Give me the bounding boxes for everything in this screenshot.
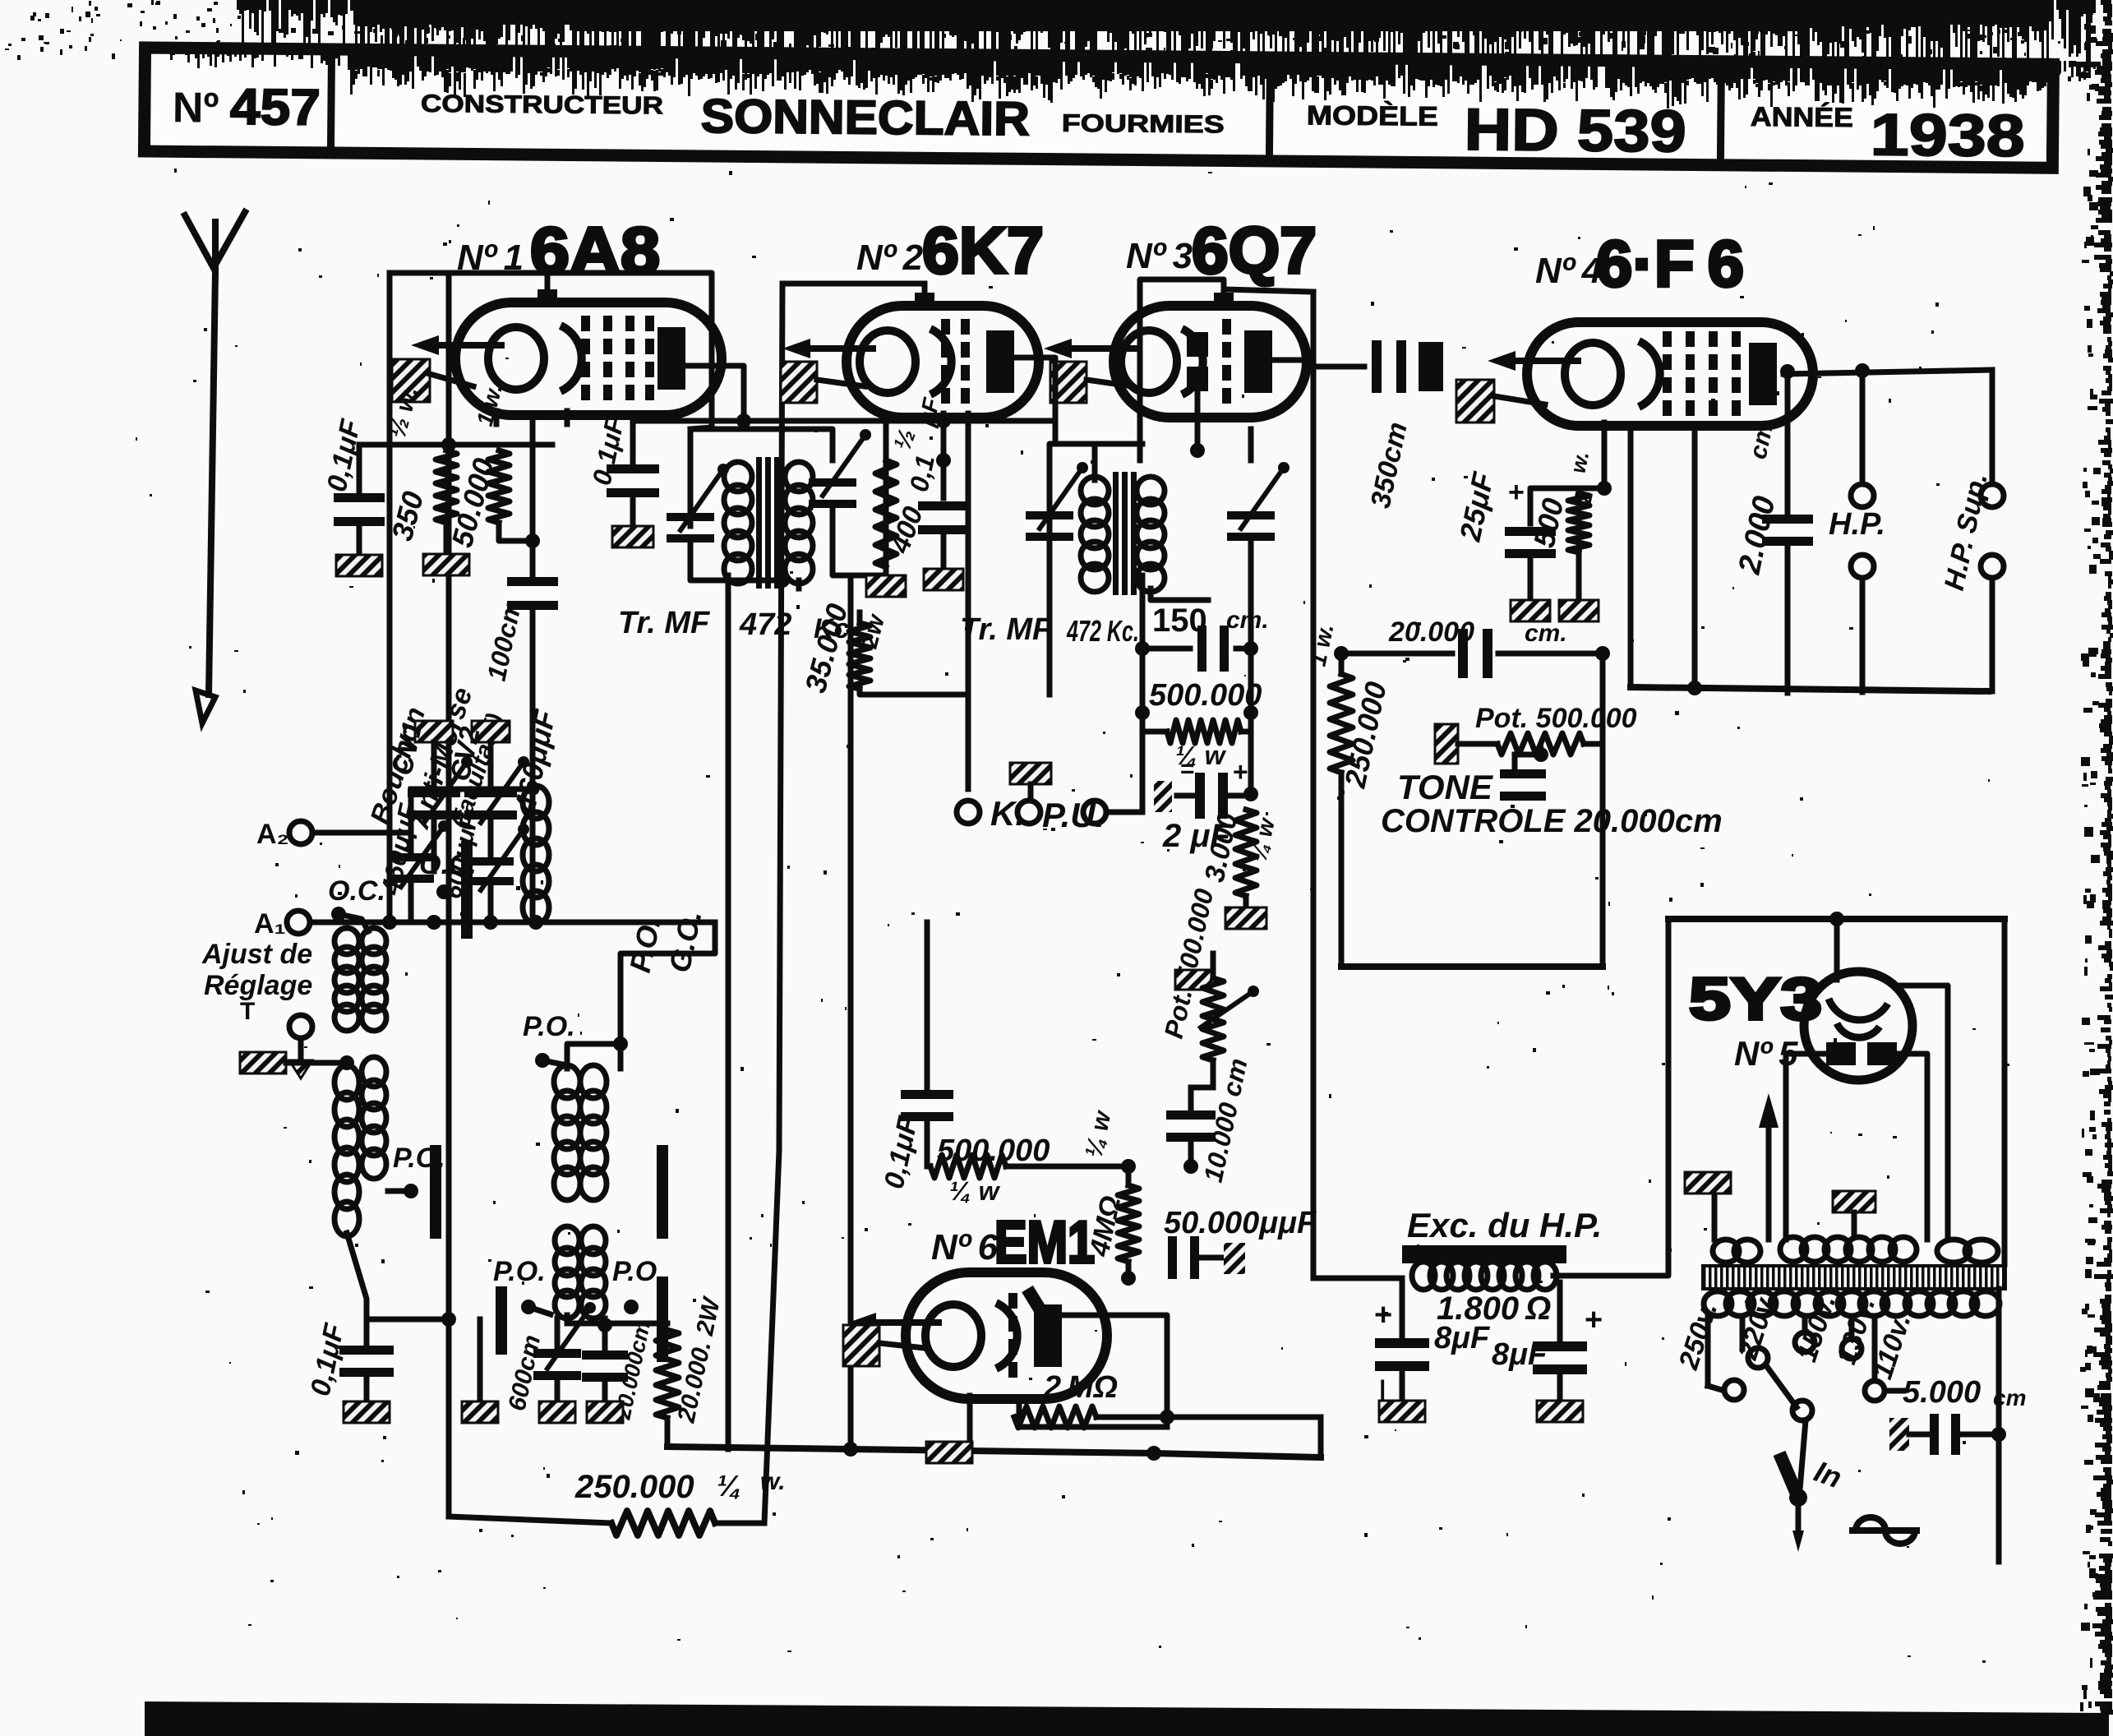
tube U3 grid wire: [1140, 279, 1224, 460]
wire A2 to bouchon: [312, 789, 536, 833]
wire EM1 bus: [1154, 1417, 1321, 1457]
svg-text:6Q7: 6Q7: [1192, 214, 1317, 287]
transformer T1 filament winding A: [1713, 1240, 1760, 1263]
trimmer MF1 right: [809, 429, 886, 575]
wire coil bottom to 0,1uF: [347, 1233, 456, 1327]
AC sine symbol: [1852, 1517, 1917, 1544]
tube U5 5Y3: [1804, 972, 1912, 1080]
wire MF1 box: [690, 429, 833, 588]
transformer Tr.MF 2 secondary: [1137, 477, 1165, 592]
svg-text:cm.: cm.: [1525, 620, 1567, 647]
bus bottom: [667, 1442, 1321, 1461]
tap 130v: [1830, 1294, 1881, 1369]
svg-text:2 MΩ: 2 MΩ: [1043, 1370, 1118, 1405]
HT arrow: [1759, 1093, 1779, 1240]
field coil winding: [1412, 1262, 1557, 1290]
wire B+ vertical 1598: [1311, 292, 1317, 1278]
coil bouchon: [523, 786, 549, 924]
transformer Tr.MF 1 primary: [724, 462, 752, 584]
label P.O. G.O.: [623, 907, 708, 976]
resistor 350 1/2w: [384, 384, 469, 575]
trimmer ajustage: [388, 820, 450, 922]
wire vertical x948: [764, 284, 782, 1523]
tube U5 cathode wire: [1898, 986, 1948, 1237]
tube U2 6K7 label: [856, 214, 1044, 287]
resistor 250.000 1w: [1305, 621, 1393, 967]
svg-text:Ajust de: Ajust de: [201, 939, 312, 970]
resistor 20.000 2W: [656, 1294, 726, 1447]
resistor 400 ohm: [875, 426, 930, 575]
wire net150 right: [1243, 575, 1258, 801]
tube U6 EM1: [848, 1272, 1107, 1399]
variable capacitor CV1: [375, 718, 473, 898]
transformer Tr.MF 1 core: [756, 457, 780, 589]
resistor 50.000 1w: [445, 381, 540, 551]
switch P.O. mid: [388, 1143, 445, 1233]
label Tr. MF 472 Kc 2: [960, 612, 1139, 648]
wire vertical x888: [726, 575, 731, 1449]
wire right vertical bottom: [1996, 1289, 2002, 1562]
svg-text:ANNÉE: ANNÉE: [1751, 101, 1853, 132]
label 1.800 ohm: [1437, 1290, 1551, 1327]
ground 400: [866, 575, 906, 597]
tap 220v: [1732, 1289, 1783, 1368]
svg-text:CONTROLE 20.000cm: CONTROLE 20.000cm: [1381, 803, 1723, 839]
tube U3 anode wire: [1224, 289, 1313, 360]
capacitor 20.000 1w cm: [1334, 616, 1610, 678]
wire U2 lead join: [782, 283, 783, 284]
switch bar low: [462, 1292, 501, 1423]
capacitor 5.000cm: [1889, 1375, 2026, 1455]
svg-text:CONSTRUCTEUR: CONSTRUCTEUR: [421, 90, 664, 120]
field coil wires: [1313, 925, 1668, 1278]
svg-text:250.000: 250.000: [574, 1469, 694, 1505]
resistor 35.000 2w: [798, 600, 968, 696]
potentiometer Pot 500.000 tone: [1435, 703, 1637, 764]
oscillator coil B: [555, 1226, 606, 1318]
terminal K: [957, 794, 1025, 833]
tube U2 grid wire: [782, 281, 925, 287]
svg-text:Réglage: Réglage: [204, 970, 312, 1001]
wire 250k loop bottom: [449, 1517, 764, 1523]
svg-text:P.O.: P.O.: [523, 1011, 575, 1042]
svg-text:Tr. MF: Tr. MF: [618, 606, 711, 640]
wire AF row: [782, 921, 927, 923]
tap 110 circle: [1865, 1371, 1903, 1401]
label 460uuF osc grid: [508, 706, 563, 815]
trimmer MF1 left: [667, 464, 729, 542]
svg-text:Nº 1: Nº 1: [457, 238, 524, 278]
svg-text:50.000μμF: 50.000μμF: [1164, 1206, 1317, 1240]
oscillator coil A: [554, 1065, 607, 1200]
svg-text:5.000: 5.000: [1903, 1375, 1981, 1410]
tube U4 6F6: [1488, 322, 1813, 426]
wire 6K7 screen down: [936, 453, 951, 468]
switch O.C. upper: [328, 875, 385, 931]
capacitor 2.000cm: [1732, 372, 1813, 693]
ground mid left: [240, 1052, 354, 1073]
tube U1 leads: [496, 411, 567, 524]
antenna: [185, 212, 245, 723]
svg-text:Tr. MF: Tr. MF: [960, 612, 1053, 647]
label Ajust de Reglage: [201, 939, 312, 1001]
ground transformer left: [1685, 1172, 1731, 1193]
capacitor 100cm: [482, 524, 558, 683]
tube U1 grid cap wire: [545, 275, 551, 289]
wire B+ top right: [1631, 426, 1988, 695]
capacitor 10.000cm: [1166, 1055, 1253, 1184]
resistor 500.000 AF: [927, 1133, 1136, 1206]
wire vertical x1035: [848, 579, 854, 1451]
tube U1 anode wire: [685, 366, 744, 421]
svg-text:EM1: EM1: [994, 1210, 1095, 1276]
switch P.O. osc top: [523, 1011, 575, 1068]
tube U1 6A8 label: [457, 214, 660, 287]
wire MF2 pri top: [1095, 444, 1142, 480]
svg-text:+: +: [1374, 1298, 1392, 1332]
svg-text:A₁: A₁: [254, 908, 286, 940]
wire left tall vertical: [446, 277, 452, 1517]
tube U1 6A8: [411, 276, 722, 415]
capacitor 350cm coupling: [1313, 340, 1527, 511]
speaker terminals H.P. Sup: [1939, 370, 2004, 691]
terminal PU ground: [1010, 763, 1051, 801]
trimmer MF2 left: [1026, 462, 1088, 541]
svg-text:1938: 1938: [1870, 102, 2025, 169]
tube U3 6Q7: [1044, 284, 1307, 418]
tube U4 leads: [1604, 422, 1695, 488]
switch P.O. low: [493, 1256, 551, 1314]
transformer Tr.MF 1 secondary: [785, 462, 813, 584]
tube U4 cathode ground: [1456, 380, 1545, 422]
transformer T1 core: [1703, 1266, 2005, 1289]
label 8uF: [1434, 1321, 1548, 1372]
svg-text:Nº 2: Nº 2: [856, 238, 924, 278]
svg-text:Pot. 500.000: Pot. 500.000: [1475, 703, 1637, 734]
tap 250v: [1672, 1299, 1744, 1400]
resistor 4 Mohm: [1083, 1185, 1139, 1286]
svg-text:¼ w: ¼ w: [949, 1176, 1001, 1206]
svg-text:MODÈLE: MODÈLE: [1307, 99, 1438, 131]
field coil Exc du H.P. label: [1407, 1206, 1602, 1244]
svg-text:8μF: 8μF: [1434, 1321, 1491, 1355]
label Tr. MF 472 Kc: [618, 606, 850, 644]
wire pot down: [1191, 1060, 1213, 1087]
transformer T1 primary: [1704, 1291, 2000, 1316]
label No6 EM1: [931, 1210, 1095, 1276]
wire AVC vertical: [382, 273, 397, 930]
field coil core: [1402, 1245, 1566, 1263]
trimmer 600cm: [504, 1302, 596, 1423]
svg-text:Exc. du H.P.: Exc. du H.P.: [1407, 1206, 1602, 1244]
svg-text:500.000: 500.000: [1149, 678, 1262, 713]
svg-text:Nº 6: Nº 6: [931, 1227, 999, 1267]
tube U1 cathode ground: [392, 359, 473, 402]
tube U5 anode wires: [1786, 1054, 1927, 1240]
tap 110v: [1866, 1310, 1917, 1383]
mains switch: [1765, 1364, 1846, 1552]
capacitor 20.000cm: [582, 1318, 655, 1423]
label Bouchon Anti-Morse (facultatif): [364, 684, 509, 833]
wire PU right: [1106, 810, 1142, 815]
svg-text:Nº 3: Nº 3: [1126, 236, 1193, 276]
resistor 500 2w: [1527, 449, 1604, 621]
wire MF1 sec bottom: [796, 580, 802, 589]
tube U3 cathode ground: [1050, 362, 1133, 403]
wire MF2 box: [1050, 429, 1251, 690]
wire 6K7 anode: [1009, 358, 1055, 444]
wire net150 left: [1135, 575, 1150, 812]
svg-text:Nº: Nº: [173, 84, 219, 132]
svg-text:+: +: [1585, 1303, 1603, 1337]
wire MF2 sec: [1151, 589, 1208, 600]
capacitor 0,1 6K7: [904, 395, 969, 590]
ground transformer mid: [1833, 1191, 1875, 1237]
terminal A2: [256, 819, 312, 850]
tube U6 ground: [926, 1442, 972, 1463]
tube U6 cathode ground: [843, 1325, 925, 1366]
tube U5 plates: [1826, 1042, 1897, 1065]
wire EM1 vertical: [1081, 1108, 1128, 1185]
capacitor 0,1uF osc: [305, 1319, 394, 1423]
wire screen rail: [633, 413, 1055, 428]
terminal T: [240, 998, 312, 1038]
transformer T1 HT winding: [1780, 1237, 1917, 1262]
switch O.C. 2: [419, 847, 477, 933]
svg-text:H.P.: H.P.: [1829, 507, 1885, 542]
svg-text:FOURMIES: FOURMIES: [1062, 110, 1225, 139]
svg-text:6·F 6: 6·F 6: [1596, 227, 1744, 300]
switch P.O. osc 2: [612, 1256, 665, 1314]
svg-text:cm.: cm.: [1226, 607, 1269, 634]
wire A1 line: [310, 915, 715, 930]
tube U5 top wire: [1834, 919, 1840, 980]
wire frame top 6A8: [390, 273, 712, 429]
svg-text:457: 457: [230, 79, 321, 136]
earth arrow under T: [289, 1038, 312, 1078]
capacitor 0,1uF AF: [879, 922, 953, 1192]
transformer Tr.MF 2 core: [1113, 472, 1137, 595]
tap 150v: [1791, 1291, 1842, 1366]
wire osc bottom: [567, 1315, 667, 1332]
tube U2 6K7: [782, 284, 1039, 418]
tube U4 6F6 label: [1535, 227, 1744, 300]
wire osc top to grid: [621, 922, 715, 1044]
terminal P.U.: [1017, 796, 1106, 834]
osc coil top wires: [542, 1037, 628, 1069]
label TONE CONTROLE: [1381, 768, 1723, 839]
capacitor 0,1uF 6A8 screen: [587, 413, 659, 547]
resistor 2 Mohm: [1014, 1370, 1174, 1428]
wire 6F6 cath: [1530, 481, 1612, 524]
svg-text:6K7: 6K7: [922, 214, 1044, 287]
svg-text:T: T: [240, 998, 255, 1025]
transformer Tr.MF 2 primary: [1081, 477, 1109, 592]
scan noise bottom bar: [145, 1701, 2109, 1736]
switch bars right: [657, 1151, 668, 1356]
tube U6 target: [1027, 1289, 1056, 1336]
tube U3 6Q7 label: [1126, 214, 1317, 287]
transformer T1 top leads: [1714, 1124, 1837, 1240]
svg-text:+: +: [1508, 477, 1525, 508]
scan noise over header: [148, 44, 2101, 108]
svg-text:Nº 4: Nº 4: [1535, 251, 1602, 291]
svg-text:472 Kc.: 472 Kc.: [1066, 614, 1139, 648]
tube U5 box: [1668, 912, 2005, 1270]
antenna coil OC: [334, 928, 386, 1031]
transformer T1 filament winding B: [1937, 1240, 1998, 1263]
wire tone box: [1341, 653, 1603, 967]
resistor 3.000 1/4w: [1199, 810, 1280, 929]
svg-text:+: +: [1233, 757, 1248, 787]
resistor 250.000 1/4w bottom: [574, 1468, 786, 1535]
trimmer MF2 right: [1227, 462, 1289, 575]
capacitor 8uF first: [1374, 1278, 1429, 1422]
svg-text:472: 472: [739, 607, 791, 642]
antenna coil PO: [334, 1057, 386, 1236]
wires CV junctions: [427, 915, 498, 930]
tube U2 cathode ground: [781, 362, 865, 403]
tube U3 diode plates: [1187, 332, 1208, 391]
svg-text:O.C.: O.C.: [328, 875, 385, 907]
capacitor 150cm: [1142, 603, 1269, 672]
wire 6A8 osc grid: [530, 641, 536, 922]
svg-text:A₂: A₂: [256, 819, 289, 850]
capacitor 0,1uF antenna: [321, 416, 385, 576]
wire bias: [359, 437, 552, 452]
capacitor tone: [1500, 755, 1546, 814]
capacitor 25uF: [1453, 469, 1556, 621]
svg-text:=: =: [1180, 755, 1195, 783]
tube U4 anode wire: [1780, 363, 1992, 379]
tube U3 diode lead: [1190, 391, 1205, 458]
capacitor 8uF second: [1533, 1282, 1603, 1422]
svg-text:|: |: [1379, 1376, 1386, 1403]
title block header: [144, 48, 2053, 169]
variable capacitor CV2: [440, 721, 529, 922]
svg-text:TONE: TONE: [1397, 768, 1494, 806]
capacitor 2uF: [1154, 755, 1251, 854]
tube U5 filament: [1829, 999, 1888, 1037]
speaker terminals H.P.: [1829, 371, 1885, 692]
tube U6 wires: [970, 1315, 1167, 1442]
resistor 500.000 1/4w: [1142, 678, 1262, 770]
terminal A1: [254, 908, 310, 940]
tube U2 leads: [886, 413, 968, 789]
svg-text:P.O.: P.O.: [493, 1256, 546, 1287]
wire 35k junction: [860, 690, 1050, 695]
svg-text:¼: ¼: [717, 1469, 741, 1503]
capacitor 50.000uuF: [1128, 1206, 1317, 1279]
potentiometer Pot 500.000: [1159, 886, 1259, 1060]
svg-text:HD 539: HD 539: [1464, 97, 1686, 164]
tube U5 5Y3 label: [1689, 967, 1822, 1073]
